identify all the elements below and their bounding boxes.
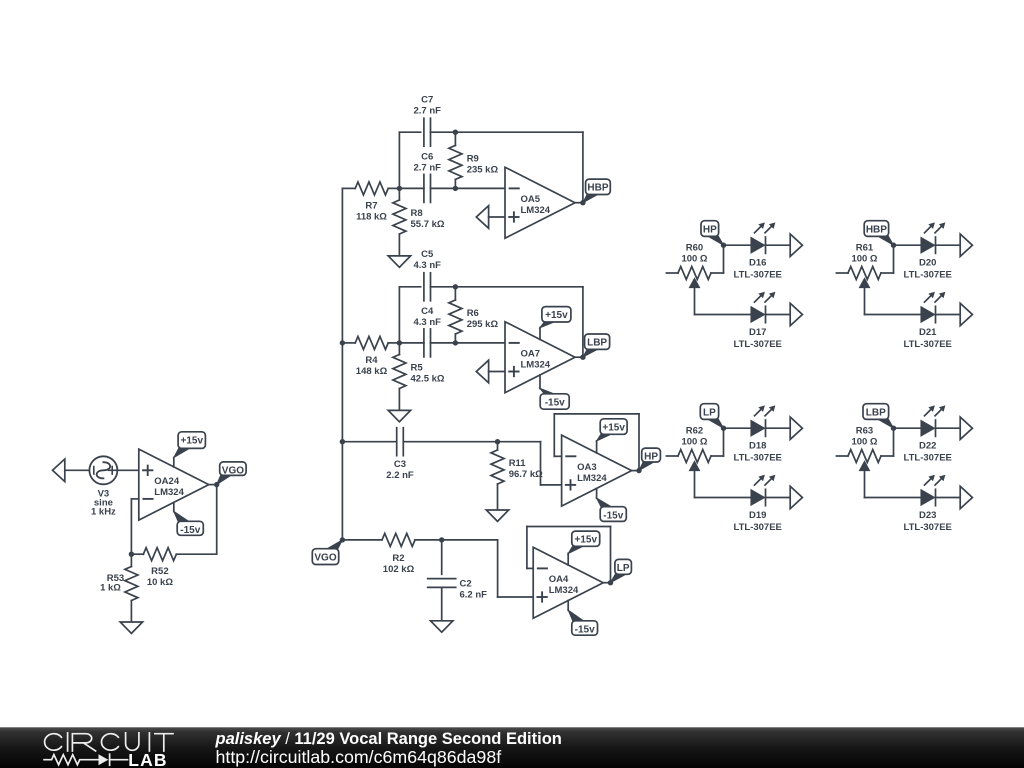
ground below R8 — [388, 256, 410, 267]
svg-text:LTL-307EE: LTL-307EE — [734, 452, 782, 463]
resistor R4 — [342, 342, 355, 344]
svg-text:LAB: LAB — [128, 750, 168, 768]
power lead -15v OA3 — [596, 488, 598, 498]
flag +15v OA24 — [174, 448, 191, 458]
svg-text:LTL-307EE: LTL-307EE — [904, 269, 952, 280]
svg-text:100 Ω: 100 Ω — [681, 436, 707, 447]
svg-text:LM324: LM324 — [521, 359, 551, 370]
svg-text:+15v: +15v — [180, 435, 203, 446]
node: OA7 output — [580, 355, 585, 360]
potentiometer R61 — [836, 272, 848, 274]
port arrow at OA5 non-inverting input — [476, 206, 488, 229]
wire: OA7 output riser — [575, 356, 583, 358]
svg-text:LTL-307EE: LTL-307EE — [904, 339, 952, 350]
svg-text:R60: R60 — [686, 242, 703, 253]
node: R4/R5/C4 junction — [397, 340, 402, 345]
wire: D16 to port — [766, 244, 791, 246]
wiper of R62 — [690, 462, 699, 470]
svg-text:100 Ω: 100 Ω — [851, 253, 877, 264]
svg-text:-15v: -15v — [575, 624, 595, 635]
capacitor C7 — [423, 118, 425, 146]
svg-text:VGO: VGO — [314, 552, 336, 563]
wire: stage2 top rail — [399, 286, 420, 288]
svg-text:96.7 kΩ: 96.7 kΩ — [509, 469, 543, 480]
svg-text:4.3 nF: 4.3 nF — [413, 317, 441, 328]
wire: junction to D16 — [724, 244, 752, 246]
svg-text:295 kΩ: 295 kΩ — [467, 319, 499, 330]
wire: stage2 left riser — [398, 287, 400, 343]
svg-text:+15v: +15v — [545, 310, 568, 321]
wire: junction to D18 — [724, 427, 752, 429]
svg-text:1 kΩ: 1 kΩ — [100, 583, 121, 594]
node: R62/D18 junction — [721, 426, 726, 431]
wire: D22 to port — [936, 427, 961, 429]
ground below C2 — [431, 621, 453, 632]
resistor R7 — [342, 187, 355, 189]
wire: to OA7 inverting input — [455, 342, 505, 344]
node: R52/R53 junction — [129, 552, 134, 557]
wire: junction to D20 — [894, 244, 922, 246]
svg-text:+15v: +15v — [602, 422, 625, 433]
svg-text:LBP: LBP — [866, 407, 886, 418]
flag LP at LED block — [707, 419, 723, 429]
power lead +15v OA7 — [539, 328, 541, 340]
flag -15v OA3 — [597, 498, 613, 508]
node: OA4 output — [608, 580, 613, 585]
svg-text:D22: D22 — [919, 441, 936, 452]
wire: OA5 output riser — [575, 202, 583, 204]
svg-text:R11: R11 — [509, 458, 527, 469]
svg-text:C4: C4 — [421, 306, 434, 317]
node: R61/D20 junction — [891, 243, 896, 248]
LED D18 — [751, 421, 764, 435]
LED D17 — [751, 307, 764, 321]
svg-text:R4: R4 — [365, 355, 378, 366]
wiper of R61 — [860, 279, 869, 287]
svg-text:235 kΩ: 235 kΩ — [467, 164, 499, 175]
flag HP at LED block — [707, 236, 723, 246]
wire: VGO vertical bus — [341, 188, 343, 540]
resistor R11 — [497, 442, 499, 450]
svg-text:D16: D16 — [749, 258, 766, 269]
svg-text:D18: D18 — [749, 441, 766, 452]
svg-text:55.7 kΩ: 55.7 kΩ — [411, 219, 445, 230]
capacitor C5 — [423, 273, 425, 301]
LED D20 — [921, 238, 934, 252]
svg-text:10 kΩ: 10 kΩ — [147, 577, 173, 588]
capacitor C3 — [396, 428, 398, 456]
resistor R8 — [398, 188, 400, 200]
node: OA3 output — [636, 468, 641, 473]
flag HP at OA3 output — [639, 461, 655, 470]
svg-text:LTL-307EE: LTL-307EE — [734, 339, 782, 350]
flag LP at OA4 output — [611, 574, 628, 583]
svg-text:2.7 nF: 2.7 nF — [413, 162, 441, 173]
power lead +15v OA4 — [567, 553, 569, 565]
svg-text:R2: R2 — [392, 553, 404, 564]
capacitor C4 — [399, 342, 424, 344]
port arrow at V3 left — [53, 459, 65, 482]
flag +15v OA3 — [597, 433, 613, 441]
svg-text:HBP: HBP — [866, 224, 887, 235]
potentiometer R60 — [666, 272, 678, 274]
svg-text:R63: R63 — [856, 425, 873, 436]
power lead -15v OA7 — [539, 375, 541, 389]
port arrow after D16 — [790, 234, 802, 256]
svg-text:paliskey / 11/29 Vocal Range S: paliskey / 11/29 Vocal Range Second Edit… — [215, 730, 562, 748]
svg-text:LM324: LM324 — [577, 473, 607, 484]
wire: stage4 input rail — [342, 539, 382, 541]
op-amp OA7 — [505, 322, 575, 393]
svg-text:LTL-307EE: LTL-307EE — [734, 269, 782, 280]
flag VGO at bus — [326, 540, 342, 550]
LED D22 — [921, 421, 934, 435]
wire: R62 to junction riser — [723, 428, 725, 456]
CircuitLab logo text CIRCUIT — [45, 733, 173, 751]
svg-text:R5: R5 — [411, 362, 424, 373]
svg-text:LM324: LM324 — [154, 487, 184, 498]
wire: stage1 left riser — [398, 132, 400, 188]
wiper of R63 — [860, 462, 869, 470]
svg-text:HP: HP — [703, 224, 717, 235]
svg-text:D19: D19 — [749, 510, 766, 521]
svg-text:2.7 nF: 2.7 nF — [413, 105, 441, 116]
wire: D18 to port — [766, 427, 791, 429]
svg-text:LM324: LM324 — [521, 205, 551, 216]
svg-text:2.2 nF: 2.2 nF — [386, 470, 414, 481]
node: R60/D16 junction — [721, 243, 726, 248]
svg-text:HBP: HBP — [587, 183, 608, 194]
wire: R63 to junction riser — [893, 428, 895, 456]
svg-text:C5: C5 — [421, 249, 434, 260]
svg-text:R62: R62 — [686, 425, 703, 436]
node: bus / C3 junction — [340, 439, 345, 444]
svg-text:D20: D20 — [919, 258, 936, 269]
svg-text:6.2 nF: 6.2 nF — [460, 590, 488, 601]
wire: feedback to OA24 inverting input — [130, 499, 132, 554]
power lead -15v OA4 — [567, 601, 569, 611]
op-amp OA24 — [139, 449, 209, 520]
wire: R60 to junction riser — [723, 245, 725, 273]
svg-text:OA3: OA3 — [577, 462, 597, 473]
svg-text:http://circuitlab.com/c6m64q86: http://circuitlab.com/c6m64q86da98f — [216, 747, 502, 767]
flag -15v OA7 — [540, 388, 557, 394]
wire: D20 to port — [936, 244, 961, 246]
svg-text:1 kHz: 1 kHz — [91, 507, 116, 518]
svg-text:118 kΩ: 118 kΩ — [356, 211, 387, 222]
flag -15v OA4 — [568, 610, 584, 621]
node: OA24 output — [214, 482, 219, 487]
port arrow after D20 — [960, 234, 972, 256]
svg-text:LP: LP — [617, 563, 630, 574]
wire: V3 to OA24 input — [117, 469, 138, 471]
svg-text:42.5 kΩ: 42.5 kΩ — [411, 373, 445, 384]
flag VGO at OA24 output — [217, 475, 232, 485]
flag +15v OA7 — [540, 321, 557, 328]
node: C3/R11 junction — [495, 439, 500, 444]
svg-text:R7: R7 — [365, 200, 377, 211]
wire: OA3 feedback loop — [632, 470, 639, 472]
svg-text:OA4: OA4 — [549, 574, 569, 585]
node: R2/C2 junction — [439, 537, 444, 542]
power lead +15v OA24 — [173, 457, 175, 467]
svg-text:LTL-307EE: LTL-307EE — [904, 452, 952, 463]
voltage source V3 — [89, 456, 117, 484]
flag LBP at OA7 output — [583, 349, 599, 358]
flag +15v OA4 — [568, 546, 584, 554]
svg-text:-15v: -15v — [545, 397, 565, 408]
power lead +15v OA3 — [596, 441, 598, 453]
wire: D23 to port — [936, 497, 961, 499]
svg-text:148 kΩ: 148 kΩ — [356, 366, 388, 377]
wire: D19 to port — [766, 497, 791, 499]
svg-text:-15v: -15v — [180, 525, 200, 536]
resistor R52 — [143, 548, 176, 561]
ground below R53 — [120, 622, 142, 633]
port arrow after D18 — [790, 417, 802, 439]
node: bus / R2 junction — [340, 537, 345, 542]
resistor R53 — [130, 554, 132, 566]
resistor R6 — [454, 287, 456, 300]
svg-text:C6: C6 — [421, 152, 433, 163]
port arrow after D23 — [960, 486, 972, 508]
svg-text:R8: R8 — [411, 208, 423, 219]
svg-text:LM324: LM324 — [549, 585, 579, 596]
capacitor C6 — [399, 187, 424, 189]
node: R9 top junction — [453, 130, 458, 135]
svg-text:4.3 nF: 4.3 nF — [413, 260, 441, 271]
svg-text:102 kΩ: 102 kΩ — [383, 564, 415, 575]
wire: to OA4 non-inverting input — [442, 539, 498, 541]
svg-text:LBP: LBP — [587, 338, 607, 349]
node: bus / R4 junction — [340, 340, 345, 345]
node: R63/D22 junction — [891, 426, 896, 431]
LED D23 — [921, 490, 934, 504]
node: R6 top junction — [453, 284, 458, 289]
port arrow after D21 — [960, 303, 972, 325]
svg-text:R9: R9 — [467, 153, 479, 164]
wiper of R60 — [690, 279, 699, 287]
svg-text:HP: HP — [644, 452, 658, 463]
wire: stage1 top rail — [399, 131, 420, 133]
LED D16 — [751, 238, 764, 252]
svg-text:LTL-307EE: LTL-307EE — [904, 522, 952, 533]
LED D21 — [921, 307, 934, 321]
node: R7/R8/C6 junction — [397, 186, 402, 191]
svg-text:100 Ω: 100 Ω — [851, 436, 877, 447]
svg-text:R61: R61 — [856, 242, 874, 253]
op-amp OA5 — [505, 167, 575, 238]
svg-text:LP: LP — [703, 407, 716, 418]
svg-text:OA24: OA24 — [154, 476, 180, 487]
node: OA5 output — [580, 200, 585, 205]
wire: R61 to junction riser — [893, 245, 895, 273]
wire: junction to D22 — [894, 427, 922, 429]
svg-text:D17: D17 — [749, 327, 766, 338]
node: R9 bottom junction — [453, 186, 458, 191]
svg-text:D21: D21 — [919, 327, 937, 338]
port arrow after D17 — [790, 303, 802, 325]
svg-text:LTL-307EE: LTL-307EE — [734, 522, 782, 533]
wire: OA24 output — [209, 484, 217, 486]
flag HBP at OA5 output — [583, 194, 599, 203]
op-amp OA3 — [562, 435, 632, 506]
ground below R5 — [388, 410, 410, 421]
svg-text:R52: R52 — [151, 566, 168, 577]
node: R6 bottom junction — [453, 340, 458, 345]
wire: OA4 feedback loop — [603, 582, 610, 584]
flag -15v OA24 — [174, 511, 190, 522]
svg-text:100 Ω: 100 Ω — [681, 253, 707, 264]
potentiometer R63 — [836, 455, 848, 457]
svg-text:C7: C7 — [421, 95, 433, 106]
op-amp OA4 — [533, 547, 603, 618]
svg-text:+15v: +15v — [574, 535, 597, 546]
svg-text:-15v: -15v — [603, 510, 623, 521]
port arrow after D19 — [790, 486, 802, 508]
power lead -15v OA24 — [173, 502, 175, 511]
svg-text:C2: C2 — [460, 579, 472, 590]
svg-text:D23: D23 — [919, 510, 936, 521]
CircuitLab logo zigzag and diode — [44, 754, 127, 765]
flag HBP at LED block — [877, 236, 893, 246]
wire: stage3 input rail — [342, 441, 396, 443]
port arrow after D22 — [960, 417, 972, 439]
wire: to OA5 inverting input — [455, 187, 505, 189]
svg-text:VGO: VGO — [222, 466, 244, 477]
LED D19 — [751, 490, 764, 504]
svg-text:OA7: OA7 — [521, 348, 541, 359]
wire: to OA3 non-inverting input — [498, 441, 541, 443]
resistor R9 — [454, 132, 456, 145]
svg-text:OA5: OA5 — [521, 194, 541, 205]
wire: D17 to port — [766, 314, 791, 316]
flag LBP at LED block — [877, 419, 893, 429]
port arrow at OA7 non-inverting input — [476, 360, 488, 383]
resistor R2 — [382, 533, 415, 546]
resistor R5 — [398, 343, 400, 355]
svg-text:R6: R6 — [467, 308, 479, 319]
wire: D21 to port — [936, 314, 961, 316]
capacitor C2 — [441, 540, 443, 574]
potentiometer R62 — [666, 455, 678, 457]
footer bar — [0, 727, 1024, 768]
ground below R11 — [486, 510, 508, 521]
svg-text:C3: C3 — [394, 459, 406, 470]
